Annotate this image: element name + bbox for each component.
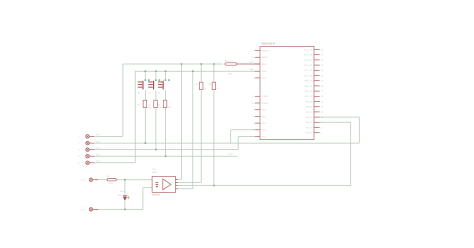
svg-text:AVCC: AVCC [262,63,268,66]
svg-text:AREF: AREF [262,56,268,59]
svg-text:RESET: RESET [262,51,270,53]
svg-text:GND: GND [228,73,233,75]
svg-text:PC5_19: PC5_19 [304,49,313,51]
svg-text:SFH617: SFH617 [152,195,161,197]
svg-text:R8 10k: R8 10k [225,61,231,63]
svg-text:PC2_16: PC2_16 [304,65,313,67]
svg-text:PD6_6: PD6_6 [305,117,312,119]
svg-text:PB4_12: PB4_12 [304,86,313,88]
svg-text:SFH6: SFH6 [152,172,158,174]
svg-text:PD5_5: PD5_5 [305,122,312,124]
svg-text:VCC: VCC [262,78,267,80]
svg-text:PD4_4: PD4_4 [305,127,312,129]
svg-text:MEGA8-P: MEGA8-P [262,41,276,45]
svg-text:PB3_11: PB3_11 [305,91,313,93]
svg-text:RXD: RXD [229,154,234,156]
svg-text:XTAL2: XTAL2 [262,102,269,105]
svg-text:OK1: OK1 [152,169,157,171]
svg-text:PB1_9: PB1_9 [306,101,313,103]
svg-text:5mm: 5mm [120,191,125,193]
svg-text:PC3_17: PC3_17 [304,60,313,62]
svg-text:PC4_18: PC4_18 [304,55,313,57]
svg-text:PB0_8: PB0_8 [306,107,313,109]
svg-text:PC1_15: PC1_15 [304,70,313,72]
svg-text:PC0_14: PC0_14 [304,75,313,77]
svg-text:PD3_3: PD3_3 [305,133,312,135]
svg-text:PB5_13: PB5_13 [304,81,313,83]
svg-text:PB2_10: PB2_10 [304,96,313,98]
svg-text:GND: GND [262,71,267,73]
svg-text:XTAL1: XTAL1 [262,95,269,98]
svg-text:LED: LED [118,195,123,197]
svg-text:PD7_7: PD7_7 [305,112,312,114]
